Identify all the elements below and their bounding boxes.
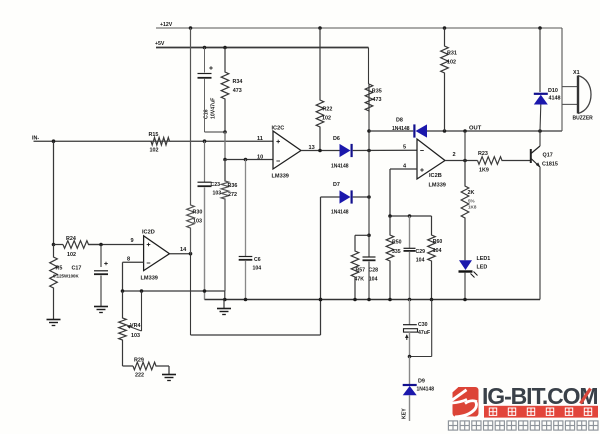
diode D6 — [340, 144, 351, 157]
potentiometer VR4 — [119, 291, 127, 366]
logo chinese bar text — [489, 408, 496, 415]
svg-text:5: 5 — [403, 145, 406, 151]
junction dots on +5V rail — [203, 46, 207, 50]
wire IC2B pin4 input — [390, 168, 417, 170]
svg-text:1N4148: 1N4148 — [331, 210, 349, 216]
wire D7 anode vertical — [320, 197, 322, 335]
capacitor C29 — [409, 216, 411, 248]
svg-text:C29: C29 — [416, 249, 426, 255]
svg-text:9: 9 — [131, 238, 134, 244]
svg-text:104: 104 — [433, 248, 442, 254]
svg-text:47uF: 47uF — [418, 330, 430, 336]
wire bottom bus — [205, 299, 541, 301]
junction dots on +12V rail — [189, 26, 193, 30]
wire OUT to pin2 node — [464, 131, 466, 161]
capacitor C16 — [204, 48, 206, 73]
svg-text:R29: R29 — [134, 358, 144, 364]
wire pin8 net line — [123, 290, 225, 292]
svg-text:10V47uF: 10V47uF — [211, 98, 217, 119]
capacitor C6 — [245, 160, 247, 257]
wire OUT line — [369, 130, 413, 132]
resistor R30 — [187, 28, 195, 254]
resistor R5 — [50, 245, 58, 320]
resistor R23 — [478, 157, 531, 165]
op-amp IC2B — [417, 139, 445, 179]
LED LED1 — [459, 260, 472, 270]
svg-text:LED1: LED1 — [477, 256, 491, 262]
diode D7 — [321, 196, 340, 198]
svg-text:D9: D9 — [418, 379, 425, 385]
wire IC2B output pin 2 — [445, 160, 478, 162]
diode D10 — [539, 28, 541, 92]
svg-text:C17: C17 — [72, 266, 82, 272]
svg-text:C28: C28 — [369, 268, 379, 274]
wire +5V rail corner down — [368, 48, 370, 85]
svg-text:272: 272 — [228, 192, 237, 198]
svg-text:LM339: LM339 — [429, 183, 446, 189]
wire R34/R36 vertical through to pin10 node — [224, 132, 226, 181]
resistor R15 — [151, 137, 170, 145]
svg-text:R60: R60 — [433, 239, 443, 245]
svg-text:1N4148: 1N4148 — [392, 126, 410, 132]
svg-text:+5V: +5V — [155, 41, 165, 47]
svg-text:R24: R24 — [66, 236, 76, 242]
svg-text:BUZZER: BUZZER — [573, 116, 594, 122]
wire C30 bottom loop — [409, 332, 411, 356]
svg-text:222: 222 — [135, 373, 144, 379]
resistor R29 — [123, 365, 134, 367]
resistor R60 — [428, 216, 436, 300]
svg-text:OUT: OUT — [469, 126, 482, 132]
power rail +12V — [156, 27, 562, 29]
svg-text:103: 103 — [193, 219, 202, 225]
svg-text:102: 102 — [67, 252, 76, 258]
wire junction line for R50/C29/R60 — [389, 215, 432, 217]
svg-text:1N4148: 1N4148 — [331, 164, 349, 170]
svg-text:335: 335 — [392, 249, 401, 255]
svg-text:D10: D10 — [548, 88, 558, 94]
wire IN- horizontal to IC2C pin 11 — [34, 140, 152, 142]
svg-text:102: 102 — [447, 60, 456, 66]
resistor R50 — [386, 216, 394, 300]
ground for R29 — [168, 366, 170, 374]
power rail +5V — [156, 47, 369, 49]
svg-text:14: 14 — [180, 247, 187, 253]
svg-text:1K8: 1K8 — [468, 205, 477, 210]
buzzer X1 — [577, 76, 579, 114]
svg-text:IG-BIT.COM: IG-BIT.COM — [482, 383, 598, 409]
svg-text:2: 2 — [453, 152, 456, 158]
svg-text:X1: X1 — [573, 70, 580, 76]
svg-text:LM339: LM339 — [272, 174, 289, 180]
svg-text:5%: 5% — [468, 199, 475, 204]
wire IN- vertical branch — [53, 141, 55, 244]
wire buzzer branch — [561, 28, 563, 131]
wire IC2D output loop — [190, 254, 192, 335]
svg-text:102: 102 — [150, 148, 159, 154]
wire R57/C28 connector — [355, 234, 369, 236]
resistor R36 — [221, 160, 229, 292]
svg-text:2K: 2K — [468, 190, 475, 196]
svg-text:C30: C30 — [418, 322, 428, 328]
resistor R31 — [441, 28, 449, 131]
svg-text:102: 102 — [322, 116, 331, 122]
resistor R34 — [221, 48, 229, 133]
svg-text:104: 104 — [253, 266, 262, 272]
capacitor C23 — [204, 141, 206, 182]
svg-text:8: 8 — [127, 257, 130, 263]
wire jog to bottom bus — [224, 291, 226, 300]
svg-text:103: 103 — [213, 191, 222, 197]
svg-text:D6: D6 — [333, 136, 340, 142]
resistor R57 — [351, 235, 359, 299]
svg-text:47K: 47K — [355, 277, 365, 283]
svg-text:C6: C6 — [254, 257, 261, 263]
capacitor C17 — [100, 245, 102, 268]
svg-text:VR4: VR4 — [130, 323, 141, 329]
svg-text:473: 473 — [233, 88, 242, 94]
wire R24 input line — [52, 243, 56, 247]
svg-text:R50: R50 — [392, 240, 402, 246]
svg-text:10: 10 — [257, 155, 263, 161]
svg-text:R57: R57 — [356, 268, 366, 274]
resistor R22 — [316, 28, 324, 151]
svg-text:LM339: LM339 — [141, 276, 158, 282]
svg-text:C1815: C1815 — [542, 162, 558, 168]
wire IC2C pin10 — [225, 159, 273, 161]
svg-text:R35: R35 — [372, 89, 382, 95]
diode D8 — [416, 124, 428, 137]
IG-BIT.COM logo — [453, 387, 479, 417]
op-amp IC2D — [144, 236, 170, 271]
svg-text:R22: R22 — [323, 107, 333, 113]
svg-text:0.125W100K: 0.125W100K — [53, 274, 79, 279]
svg-text:R23: R23 — [478, 151, 488, 157]
svg-text:R36: R36 — [228, 183, 238, 189]
svg-text:D8: D8 — [396, 118, 403, 124]
svg-text:IC2D: IC2D — [142, 230, 155, 236]
svg-text:R31: R31 — [447, 51, 457, 57]
svg-text:KEY: KEY — [402, 408, 408, 419]
svg-text:Q17: Q17 — [543, 153, 553, 159]
svg-text:+12V: +12V — [160, 22, 173, 28]
svg-text:1N4148: 1N4148 — [417, 387, 435, 393]
wire to KEY — [409, 395, 411, 421]
resistor 2K — [461, 161, 469, 261]
ground for C17 — [94, 306, 108, 308]
svg-text:R5: R5 — [56, 266, 63, 272]
svg-text:R30: R30 — [193, 210, 203, 216]
svg-text:R34: R34 — [233, 79, 243, 85]
wire IC2D output pin14 — [170, 253, 191, 255]
op-amp IC2C — [273, 131, 301, 169]
transistor Q17 — [530, 149, 532, 163]
resistor R35 — [365, 84, 373, 111]
svg-text:11: 11 — [257, 136, 263, 142]
ground at bottom bus — [223, 300, 225, 309]
svg-text:104: 104 — [416, 258, 425, 264]
svg-text:IC2C: IC2C — [272, 126, 285, 132]
wire D6 cathode to node — [353, 149, 417, 151]
svg-text:R15: R15 — [149, 132, 159, 138]
svg-text:1K9: 1K9 — [479, 168, 489, 174]
svg-text:104: 104 — [369, 277, 378, 283]
svg-text:C23: C23 — [211, 182, 221, 188]
svg-text:13: 13 — [309, 145, 315, 151]
svg-text:LED: LED — [477, 265, 488, 271]
wire IC2C output pin 13 — [301, 150, 340, 152]
svg-text:IC2B: IC2B — [429, 173, 442, 179]
wire IC2D pin8 input — [123, 261, 144, 263]
resistor R24 — [63, 241, 101, 249]
capacitor C28 — [368, 235, 370, 256]
ground for R5 — [47, 319, 61, 321]
svg-text:103: 103 — [131, 333, 140, 339]
wire C16 bottom lead — [204, 79, 206, 132]
svg-text:D7: D7 — [333, 182, 340, 188]
svg-text:473: 473 — [373, 97, 382, 103]
svg-text:4148: 4148 — [549, 96, 561, 102]
diode D9 — [409, 357, 411, 385]
logo chinese bottom line — [448, 421, 457, 430]
capacitor C30 — [409, 300, 411, 325]
